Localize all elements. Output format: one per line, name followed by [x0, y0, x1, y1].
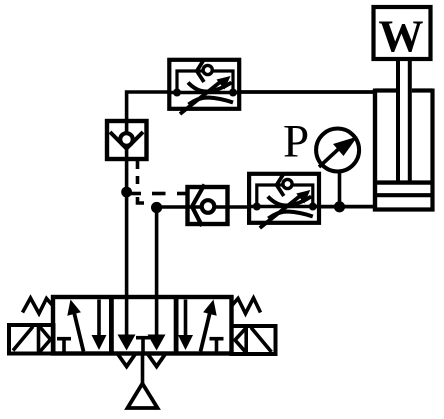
- pressure gauge: [316, 129, 359, 172]
- wire: FCV2 to cylinder bottom: [319, 205, 376, 209]
- check valve CV2 (horizontal): [188, 185, 228, 227]
- chevron arrow right below valve: [148, 354, 166, 367]
- wire: top pipe FCV1 to cylinder: [238, 90, 376, 94]
- dcv right box: down arrow: [178, 300, 224, 352]
- dcv centre box: down arrow B: [155, 299, 159, 338]
- chevron arrow left below valve: [118, 354, 136, 367]
- wire: gauge stem: [338, 172, 342, 207]
- svg-text:P: P: [283, 116, 309, 168]
- dcv centre box: blocked port P: [136, 336, 150, 340]
- wire: dot B to CV2: [157, 205, 188, 209]
- wire: valve to tank: [141, 354, 145, 386]
- dcv left box: down arrow: [97, 300, 101, 339]
- dcv left box: blocked port T: [57, 337, 71, 341]
- solenoid pilot box right: [232, 326, 276, 354]
- weight W box: [374, 7, 431, 62]
- tank triangle: [128, 384, 158, 409]
- check valve CV1 (vertical): [107, 121, 147, 159]
- node: junction dot B: [151, 202, 162, 213]
- wire: CV2 to FCV2: [228, 205, 251, 209]
- dcv centre box: down arrow A: [118, 299, 166, 352]
- solenoid pilot box left: [9, 325, 54, 354]
- flow control valve FCV2 (with check bypass): [248, 174, 319, 228]
- dcv right box: up arrow: [201, 310, 211, 352]
- cylinder C1: [373, 89, 435, 212]
- directional valve 4/3 body: [53, 297, 232, 354]
- flow control valve FCV1 (with check bypass): [169, 60, 240, 114]
- pilot line (dashed) from CV1: [138, 161, 145, 203]
- svg-text:W: W: [379, 12, 424, 62]
- wire: CV1 down to valve port A: [125, 159, 129, 299]
- node: junction dot gauge: [334, 201, 345, 212]
- node: junction dot A: [121, 187, 132, 198]
- pilot line (dashed) to CV2: [129, 192, 186, 196]
- wire: top pipe corner to FCV1: [127, 92, 169, 121]
- spring right: [232, 298, 261, 314]
- dcv right box: blocked port T: [210, 337, 224, 341]
- wire: dot B down to valve port B: [155, 208, 159, 300]
- piston rod (double line): [398, 59, 410, 184]
- piston: [375, 180, 433, 184]
- dcv left box: up arrow: [57, 300, 107, 352]
- spring left: [23, 298, 54, 314]
